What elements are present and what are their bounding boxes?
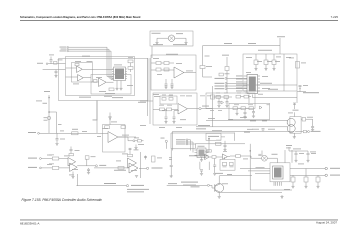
svg-text:August 24, 2007: August 24, 2007 — [316, 220, 337, 224]
svg-text:Figure 7-155. PMLF4055A Contro: Figure 7-155. PMLF4055A Controller Audio… — [22, 198, 103, 202]
svg-text:Schematics, Component Location: Schematics, Component Location Diagrams,… — [20, 15, 141, 19]
svg-text:6816533H01-A: 6816533H01-A — [20, 221, 40, 225]
svg-text:7-225: 7-225 — [331, 15, 339, 19]
